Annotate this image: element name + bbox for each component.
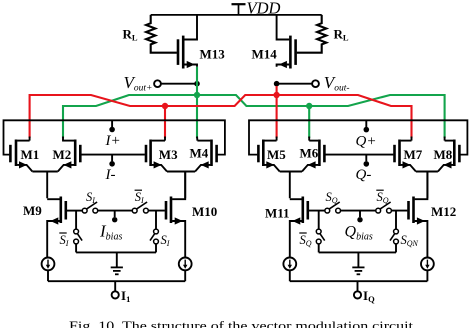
svg-text:M12: M12 — [431, 204, 456, 219]
wire M10 current source to rail — [184, 270, 186, 281]
svg-text:M14: M14 — [252, 47, 278, 62]
terminal I1 open circle — [112, 291, 119, 298]
wire stub M4 drain — [196, 137, 198, 141]
transistor M6 — [302, 140, 324, 172]
wire tee down to SQ-bar lower-left — [318, 211, 320, 230]
current source under M12 — [421, 258, 434, 271]
transistor M1 — [10, 140, 32, 172]
wire between switches left — [98, 210, 133, 212]
svg-text:I+: I+ — [105, 133, 121, 149]
wire IQ stem — [357, 281, 359, 291]
transistor M8 — [438, 140, 460, 172]
wire switch to M10 gate — [148, 210, 165, 212]
wire lower-right switch to rail right — [395, 244, 397, 253]
transistor M11 — [290, 197, 308, 258]
wire stub M7 drain — [411, 137, 413, 141]
wire lower-left switch to rail right — [318, 244, 320, 253]
wire M11 gate to switch SQ — [309, 210, 325, 212]
wire M3/M4 common source — [167, 172, 195, 199]
wire red branch Vout- to M5 drain — [276, 86, 278, 138]
wire M5/M6 common source — [280, 172, 302, 199]
wire bottom rail left block — [48, 280, 185, 282]
node Q- stub and dot — [365, 155, 367, 162]
wire Q- (M6/M7 gate net) — [326, 154, 394, 156]
switch SQN lower-right — [390, 229, 398, 244]
svg-text:M8: M8 — [434, 147, 453, 162]
svg-text:M7: M7 — [404, 147, 423, 162]
node red junction at Vout- column — [273, 92, 279, 98]
switch SI lower-right — [150, 229, 158, 244]
node green junction at Vout+ column — [194, 92, 200, 98]
wire stub M1 drain — [29, 137, 31, 141]
current source under M10 — [179, 258, 192, 271]
svg-text:M13: M13 — [200, 47, 226, 62]
wire I1 stem — [114, 281, 116, 291]
transistor M14 — [277, 15, 296, 69]
wire green bus (M2-Vout+-M6-M8 net) — [63, 95, 445, 138]
wire tee down to SI-bar lower-left — [75, 211, 77, 230]
svg-text:M2: M2 — [53, 147, 72, 162]
wire M9 gate to switch SI — [67, 210, 83, 212]
wire M9 current source to rail — [47, 270, 49, 281]
switch SQ-bar top-right — [376, 202, 392, 213]
node Ibias stub and dot — [114, 211, 116, 217]
resistor RL left — [146, 15, 177, 53]
node Vout- junction dot — [274, 81, 280, 87]
svg-text:M5: M5 — [267, 147, 286, 162]
node I- stub and dot — [111, 155, 113, 162]
transistor M2 — [58, 140, 81, 172]
terminal Vout- open circle — [312, 80, 319, 87]
switch SI-bar top-right — [132, 202, 148, 213]
terminal Vout+ open circle — [154, 80, 161, 87]
wire lower-left switch to rail — [75, 244, 77, 253]
current source under M9 — [42, 258, 55, 271]
wire M12 current source to rail — [426, 270, 428, 281]
terminal IQ open circle — [354, 291, 361, 298]
svg-text:I-: I- — [105, 167, 116, 183]
svg-text:M1: M1 — [21, 147, 40, 162]
current source under M11 — [283, 258, 296, 271]
wire I- (M2/M3 gate net) — [81, 154, 144, 156]
ground right — [352, 252, 364, 274]
wire stub M5 drain — [276, 137, 278, 141]
switch SQ top-left — [325, 202, 341, 213]
transistor M7 — [395, 140, 416, 172]
transistor M13 — [178, 15, 197, 69]
wire Vout- — [277, 83, 313, 85]
svg-text:M3: M3 — [159, 147, 178, 162]
resistor RL right — [297, 15, 327, 53]
transistor M9 — [47, 197, 66, 258]
wire M1/M2 common source — [32, 172, 57, 199]
ground left — [111, 252, 123, 274]
wire between switches right — [340, 210, 376, 212]
wire stub M6 drain — [308, 137, 310, 141]
transistor M3 — [146, 140, 167, 172]
wire switch to M12 gate — [391, 210, 407, 212]
node green junction at M6 column — [306, 103, 312, 109]
transistor M5 — [258, 140, 279, 172]
wire switch ground rail left — [76, 251, 156, 253]
wire switch ground rail right — [319, 251, 396, 253]
wire red bus (M1-M3-Vout- net) — [30, 95, 412, 138]
svg-text:M6: M6 — [300, 146, 319, 161]
wire top VDD rail — [151, 14, 322, 16]
wire red branch to M3 drain — [164, 106, 166, 138]
node red junction at M3 column — [162, 103, 168, 109]
svg-text:Fig. 10. The structure of the: Fig. 10. The structure of the vector mod… — [69, 319, 414, 328]
switch SQ-bar lower-left — [316, 229, 324, 244]
svg-text:M4: M4 — [190, 146, 209, 161]
svg-text:M9: M9 — [23, 203, 42, 218]
wire lower-right switch to rail — [155, 244, 157, 253]
wire stub M2 drain — [62, 137, 64, 141]
wire Q+ frame (M5/M8 gate net) — [249, 120, 467, 154]
switch SI-bar lower-left — [74, 229, 82, 244]
wire green branch Vout+ to M4 drain — [196, 67, 198, 138]
svg-text:M10: M10 — [192, 204, 217, 219]
svg-text:Q-: Q- — [356, 167, 372, 183]
svg-text:Q+: Q+ — [356, 133, 377, 149]
wire M11 current source to rail — [289, 270, 291, 281]
transistor M4 — [195, 140, 217, 172]
wire stub M8 drain — [444, 137, 446, 141]
node Vout+ junction dot — [194, 81, 200, 87]
node Q+ stub and dot — [365, 120, 367, 127]
wire I+ frame (M1/M4 gate net) — [4, 120, 225, 154]
wire M7/M8 common source — [416, 172, 438, 199]
wire bottom rail right block — [290, 280, 428, 282]
VDD power symbol — [232, 4, 246, 15]
svg-text:M11: M11 — [265, 205, 290, 220]
wire Vout+ — [161, 83, 197, 85]
wire tee down to SI lower-right — [155, 211, 157, 230]
wire green branch to M6 drain — [308, 106, 310, 138]
transistor M10 — [166, 172, 185, 258]
wire tee down to SQN lower-right — [395, 211, 397, 230]
transistor M12 — [409, 172, 428, 258]
switch SI top-left — [82, 202, 97, 213]
node Qbias stub and dot — [359, 211, 361, 217]
node I+ stub and dot — [111, 120, 113, 127]
wire stub M3 drain — [164, 137, 166, 141]
